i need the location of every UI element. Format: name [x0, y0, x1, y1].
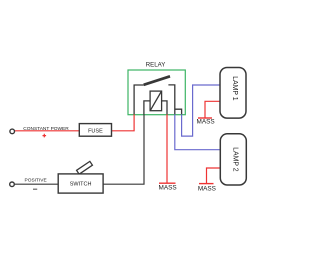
svg-text:LAMP 1: LAMP 1 — [231, 76, 239, 101]
svg-text:RELAY: RELAY — [146, 62, 166, 69]
svg-text:MASS: MASS — [198, 185, 216, 192]
svg-text:SWITCH: SWITCH — [70, 181, 92, 187]
svg-text:LAMP 2: LAMP 2 — [231, 147, 239, 172]
svg-text:FUSE: FUSE — [88, 128, 103, 134]
svg-text:POSITIVE: POSITIVE — [25, 178, 47, 184]
svg-text:CONSTANT POWER: CONSTANT POWER — [23, 126, 69, 132]
svg-text:MASS: MASS — [159, 185, 177, 192]
svg-text:MASS: MASS — [197, 118, 215, 125]
